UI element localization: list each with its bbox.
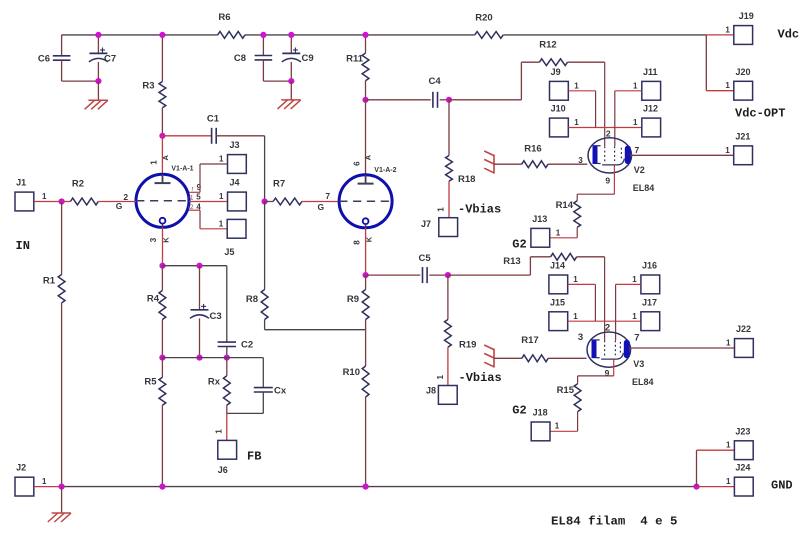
resistor R20 xyxy=(475,32,504,39)
svg-text:R12: R12 xyxy=(539,40,556,51)
wire Vdc corner down to J20 level xyxy=(705,35,707,91)
resistor R12 xyxy=(521,61,539,63)
resistor R13 xyxy=(530,256,550,258)
svg-text:C3: C3 xyxy=(210,311,222,322)
capacitor C7 electrolytic xyxy=(97,35,99,53)
chassis symbol upper xyxy=(493,155,495,174)
connector J14 xyxy=(549,275,568,294)
wire J2 pin 1 xyxy=(34,486,62,488)
V3 left electrode bar xyxy=(592,339,597,358)
node C4 right junction xyxy=(446,97,452,103)
svg-text:R3: R3 xyxy=(142,81,154,92)
resistor R17 xyxy=(494,357,522,359)
wire C8-C9 bottom xyxy=(263,80,291,82)
wire K1 horizontal xyxy=(163,265,227,267)
svg-text:J6: J6 xyxy=(218,465,228,475)
svg-text:J13: J13 xyxy=(532,214,547,224)
svg-text:1: 1 xyxy=(215,429,224,434)
tube V2 pentode outline xyxy=(588,138,632,173)
svg-text:FB: FB xyxy=(247,450,261,464)
svg-text:-Vbias: -Vbias xyxy=(459,371,502,385)
svg-text:1: 1 xyxy=(574,118,579,127)
connector J11 xyxy=(642,81,661,100)
svg-text:J1: J1 xyxy=(16,178,26,188)
connector J12 xyxy=(642,118,661,137)
svg-text:G2: G2 xyxy=(512,238,526,252)
svg-text:C5: C5 xyxy=(419,253,432,264)
svg-text:C4: C4 xyxy=(429,76,442,87)
svg-text:J3: J3 xyxy=(230,140,240,150)
svg-text:R6: R6 xyxy=(218,12,230,23)
wire anode stub V1-A-1 xyxy=(161,136,163,176)
svg-text:R11: R11 xyxy=(346,54,364,65)
svg-text:IN: IN xyxy=(16,239,30,253)
tube V1-A-1 triode circle xyxy=(136,174,189,227)
wire J16 drop to filament xyxy=(615,284,617,321)
node C7 top junction xyxy=(95,32,101,38)
svg-text:1: 1 xyxy=(632,312,637,321)
svg-text:J24: J24 xyxy=(735,463,750,473)
svg-text:J12: J12 xyxy=(643,104,658,114)
svg-text:1: 1 xyxy=(726,477,731,486)
svg-text:R14: R14 xyxy=(556,200,574,211)
wire R7 column down to R8 xyxy=(264,202,266,290)
wire J16 pin 1 xyxy=(616,283,641,285)
resistor R7 xyxy=(265,201,274,203)
svg-text:1: 1 xyxy=(436,374,445,379)
svg-text:6: 6 xyxy=(352,161,361,166)
svg-text:V3: V3 xyxy=(633,359,644,369)
svg-text:1: 1 xyxy=(574,81,579,90)
wire J11 drop to filament xyxy=(614,91,616,128)
tube V1-A-2 triode circle xyxy=(339,175,392,228)
svg-text:8: 8 xyxy=(352,240,361,245)
V2 cathode curve xyxy=(602,159,624,165)
svg-text:1: 1 xyxy=(725,25,730,34)
svg-text:G: G xyxy=(317,202,324,212)
V3 anode bar xyxy=(624,340,630,359)
svg-text:R18: R18 xyxy=(458,174,475,185)
svg-text:1: 1 xyxy=(726,441,731,450)
svg-text:A: A xyxy=(161,155,170,161)
svg-text:R15: R15 xyxy=(557,385,575,396)
connector J3 xyxy=(228,155,247,174)
wire to J24 xyxy=(697,486,735,488)
wire R13 down to pin 2 of V3 xyxy=(604,257,606,340)
svg-text:GND: GND xyxy=(771,478,793,492)
resistor R18 xyxy=(448,100,450,156)
svg-text:K: K xyxy=(365,236,374,242)
connector J8 xyxy=(438,386,457,405)
node C9 bottom junction xyxy=(288,78,294,84)
svg-text:J18: J18 xyxy=(533,407,548,417)
svg-text:J7: J7 xyxy=(421,219,431,229)
pin 7 wire V2 to J21 xyxy=(630,154,734,156)
svg-text:1: 1 xyxy=(42,477,47,486)
svg-text:1: 1 xyxy=(219,219,224,228)
svg-text:1: 1 xyxy=(725,146,730,155)
svg-text:J22: J22 xyxy=(736,324,751,334)
chassis symbol lower xyxy=(493,349,495,368)
wire R14 to J13 xyxy=(550,237,577,239)
wire C5 to R13 xyxy=(448,274,531,276)
svg-text:9: 9 xyxy=(197,183,202,192)
pin 9 wire V2 xyxy=(613,165,615,194)
connector J19 xyxy=(734,26,753,45)
svg-text:R19: R19 xyxy=(459,340,476,351)
node C9 top junction xyxy=(288,32,294,38)
node C8 top junction xyxy=(260,32,266,38)
wire top Vdc rail segment 2 xyxy=(245,34,475,36)
resistor R15 xyxy=(577,376,579,384)
node K2 / C5 junction xyxy=(363,272,369,278)
wire J1 pin 1 xyxy=(34,201,62,203)
V3 cathode curve xyxy=(601,353,623,359)
pin 7 wire V3 to J22 xyxy=(629,347,734,349)
connector J22 xyxy=(735,339,754,358)
svg-text:4: 4 xyxy=(196,202,201,211)
cathode of V1-A-2 xyxy=(363,218,369,224)
V2 filament dashed lines xyxy=(604,146,606,163)
resistor R8 xyxy=(261,290,268,320)
capacitor C4 xyxy=(366,99,431,101)
svg-text:R4: R4 xyxy=(147,293,160,304)
node R10 bottom junction xyxy=(363,484,369,490)
svg-text:1: 1 xyxy=(149,160,158,165)
svg-text:J17: J17 xyxy=(642,297,657,307)
svg-text:r: r xyxy=(191,185,193,192)
capacitor C5 xyxy=(366,274,421,276)
node C3 bottom junction xyxy=(196,355,202,361)
wire to J23 xyxy=(696,450,698,486)
svg-text:J16: J16 xyxy=(642,261,657,271)
connector J6 xyxy=(218,440,237,459)
node R3 top junction xyxy=(159,32,165,38)
capacitor Cx xyxy=(262,358,264,388)
ground below C9 xyxy=(290,81,292,100)
svg-text:7: 7 xyxy=(634,333,639,344)
svg-text:J4: J4 xyxy=(230,178,240,188)
svg-text:G2: G2 xyxy=(512,404,526,418)
connector J17 xyxy=(641,312,660,331)
connector J21 xyxy=(734,146,753,165)
svg-text:G: G xyxy=(116,201,123,211)
node C3 top junction xyxy=(196,263,202,269)
wire C1 to grid-2 column xyxy=(216,135,264,137)
svg-text:C9: C9 xyxy=(302,53,314,64)
svg-text:Rx: Rx xyxy=(208,377,221,388)
pin 4 stub V1-A-1 xyxy=(189,209,200,211)
wire anode stub V1-A-2 xyxy=(365,100,367,176)
connector J1 xyxy=(15,192,34,211)
svg-text:EL84: EL84 xyxy=(633,183,655,193)
node C5 right junction xyxy=(445,272,451,278)
svg-text:V2: V2 xyxy=(634,165,645,175)
capacitor C6 xyxy=(61,35,63,56)
svg-text:1: 1 xyxy=(219,155,224,164)
resistor R16 xyxy=(494,163,522,165)
wire to J6 xyxy=(226,413,228,440)
wire down to C2 xyxy=(226,266,228,342)
connector J4 xyxy=(228,192,247,211)
svg-text:J20: J20 xyxy=(736,67,751,77)
svg-text:R5: R5 xyxy=(144,377,157,388)
capacitor C9 electrolytic xyxy=(290,35,292,53)
node J2 junction xyxy=(59,484,65,490)
svg-text:2: 2 xyxy=(605,323,610,334)
connector J18 xyxy=(531,422,550,441)
capacitor C2 xyxy=(218,341,236,343)
resistor Rx xyxy=(226,358,228,376)
svg-text:3: 3 xyxy=(578,332,583,343)
node K1 junction xyxy=(159,263,165,269)
svg-text:C7: C7 xyxy=(104,54,116,65)
connector J10 xyxy=(550,118,569,137)
node C2 bottom junction xyxy=(224,355,230,361)
capacitor C1 xyxy=(162,135,211,137)
svg-text:1: 1 xyxy=(42,192,47,201)
svg-text:1: 1 xyxy=(573,275,578,284)
svg-text:EL84 filam 4 e 5: EL84 filam 4 e 5 xyxy=(551,515,677,529)
wire R8 bottom to R9 column xyxy=(265,329,366,331)
svg-text:Vdc: Vdc xyxy=(778,28,800,42)
svg-text:1: 1 xyxy=(555,422,560,431)
svg-text:9: 9 xyxy=(605,175,610,185)
wire pin4 to J5 xyxy=(199,210,201,229)
svg-text:J2: J2 xyxy=(16,463,26,473)
resistor R2 xyxy=(62,201,71,203)
ground below J2 xyxy=(61,487,63,513)
svg-text:J21: J21 xyxy=(735,131,750,141)
svg-text:r2: r2 xyxy=(188,204,194,211)
tube V3 pentode outline xyxy=(587,332,631,367)
wire R12 down to pin 2 of V2 xyxy=(604,62,606,146)
node R11 bottom / C4 junction xyxy=(362,97,368,103)
connector J15 xyxy=(549,312,568,331)
svg-text:V1-A-1: V1-A-1 xyxy=(171,166,193,173)
wire J9 drop xyxy=(595,91,597,128)
wire top Vdc rail segment 3 xyxy=(503,34,706,36)
resistor R3 xyxy=(161,35,163,82)
svg-text:7: 7 xyxy=(325,191,330,201)
V2 left electrode bar xyxy=(593,145,598,164)
svg-text:-Vbias: -Vbias xyxy=(458,202,501,216)
wire J14 pin 1 xyxy=(568,283,596,285)
svg-text:R2: R2 xyxy=(72,179,84,190)
connector J16 xyxy=(641,275,660,294)
svg-text:J11: J11 xyxy=(643,67,658,77)
V3 filament dashed lines xyxy=(604,340,606,357)
svg-text:R1: R1 xyxy=(43,275,56,286)
wire Rx-Cx bottom xyxy=(227,412,263,414)
svg-text:1: 1 xyxy=(726,339,731,348)
ground below C7 xyxy=(97,81,99,100)
svg-text:1: 1 xyxy=(633,118,638,127)
svg-text:1: 1 xyxy=(725,81,730,90)
svg-text:2: 2 xyxy=(606,128,611,138)
connector J7 xyxy=(439,218,458,237)
svg-text:1: 1 xyxy=(436,207,445,212)
svg-text:EL84: EL84 xyxy=(632,377,654,387)
svg-text:R20: R20 xyxy=(475,13,492,24)
resistor R6 xyxy=(218,32,245,39)
wire cathode V1-A-1 down xyxy=(162,227,164,266)
resistor R1 xyxy=(61,202,63,275)
svg-text:J14: J14 xyxy=(550,261,565,271)
connector J20 xyxy=(734,81,753,100)
grid of V1-A-2 xyxy=(339,200,392,202)
wire pin9 to J3 xyxy=(199,164,201,192)
svg-text:1: 1 xyxy=(556,228,561,237)
svg-text:3: 3 xyxy=(149,237,158,242)
wire J14 drop xyxy=(594,284,596,321)
node GND right junction xyxy=(693,484,699,490)
resistor R4 xyxy=(161,266,163,291)
node R7 junction xyxy=(262,198,268,204)
node R4 bottom junction xyxy=(159,355,165,361)
wire R15 to J18 xyxy=(550,430,577,432)
resistor R10 xyxy=(362,366,369,397)
svg-text:J15: J15 xyxy=(550,297,565,307)
svg-text:K: K xyxy=(162,237,171,243)
node anode V1-A-1 / C1 junction xyxy=(159,133,165,139)
node C7 bottom junction xyxy=(95,78,101,84)
wire cathode V1-A-2 down xyxy=(365,228,367,275)
svg-text:J9: J9 xyxy=(551,67,561,77)
svg-text:R8: R8 xyxy=(246,294,258,305)
svg-text:R10: R10 xyxy=(343,367,360,378)
connector J9 xyxy=(550,81,569,100)
plate of V1-A-1 xyxy=(162,174,164,183)
svg-text:C8: C8 xyxy=(234,53,246,64)
connector J23 xyxy=(734,441,753,460)
resistor R11 xyxy=(365,35,367,53)
wire J15 pin 1 xyxy=(568,320,641,322)
svg-text:1: 1 xyxy=(632,275,637,284)
svg-text:V1-A-2: V1-A-2 xyxy=(374,167,396,174)
wire cathode bias net horizontal xyxy=(162,357,263,359)
svg-text:3: 3 xyxy=(578,156,583,165)
svg-text:R9: R9 xyxy=(347,294,359,305)
capacitor C3 electrolytic xyxy=(199,266,201,310)
wire J11 pin 1 xyxy=(615,90,642,92)
node R5 bottom junction xyxy=(159,484,165,490)
svg-text:J23: J23 xyxy=(735,426,750,436)
svg-text:5: 5 xyxy=(196,193,201,202)
svg-text:A: A xyxy=(364,154,373,160)
cathode of V1-A-1 xyxy=(160,218,166,224)
svg-text:J19: J19 xyxy=(739,11,754,21)
svg-text:R7: R7 xyxy=(273,179,285,190)
svg-text:2: 2 xyxy=(123,192,128,202)
svg-text:R16: R16 xyxy=(524,144,541,155)
V2 anode bar xyxy=(625,146,631,165)
svg-text:C2: C2 xyxy=(241,340,253,351)
connector J24 xyxy=(734,477,753,496)
svg-text:7: 7 xyxy=(635,145,640,155)
svg-text:r1: r1 xyxy=(188,195,194,202)
svg-text:Vdc-OPT: Vdc-OPT xyxy=(735,107,785,121)
svg-text:1: 1 xyxy=(573,312,578,321)
connector J2 xyxy=(15,477,34,496)
svg-text:1: 1 xyxy=(633,81,638,90)
connector J5 xyxy=(227,219,246,238)
plate of V1-A-2 xyxy=(365,175,367,184)
wire C4 to R12 xyxy=(449,99,521,101)
wire pin stub to J19 xyxy=(706,34,734,36)
wire J10 pin 1 xyxy=(568,127,642,129)
node R11 top junction xyxy=(362,32,368,38)
svg-text:C1: C1 xyxy=(207,114,220,125)
svg-text:J8: J8 xyxy=(426,386,436,396)
svg-text:R17: R17 xyxy=(521,335,538,346)
pin 9 stub V1-A-1 xyxy=(189,191,200,193)
wire pin stub to J20 xyxy=(706,90,734,92)
resistor R19 xyxy=(447,275,449,319)
pin 5 stub V1-A-1 xyxy=(189,201,228,203)
wire J9 pin 1 xyxy=(568,90,595,92)
resistor R9 xyxy=(365,275,367,289)
svg-text:J5: J5 xyxy=(224,247,234,257)
capacitor C8 xyxy=(262,35,264,55)
svg-text:J10: J10 xyxy=(551,104,566,114)
pin 9 wire V3 xyxy=(613,359,615,376)
node J1/R1/R2 junction xyxy=(59,198,65,204)
svg-text:1: 1 xyxy=(219,192,224,201)
svg-text:C6: C6 xyxy=(38,54,50,65)
wire bottom GND rail xyxy=(62,486,697,488)
connector J13 xyxy=(531,228,550,247)
grid of V1-A-1 xyxy=(136,200,189,202)
resistor R14 xyxy=(576,194,578,201)
svg-text:Cx: Cx xyxy=(274,385,287,396)
svg-text:R13: R13 xyxy=(503,256,520,267)
resistor R5 xyxy=(161,358,163,378)
wire C6-C7 bottom xyxy=(62,80,99,82)
wire top Vdc rail segment 1 xyxy=(62,34,218,36)
